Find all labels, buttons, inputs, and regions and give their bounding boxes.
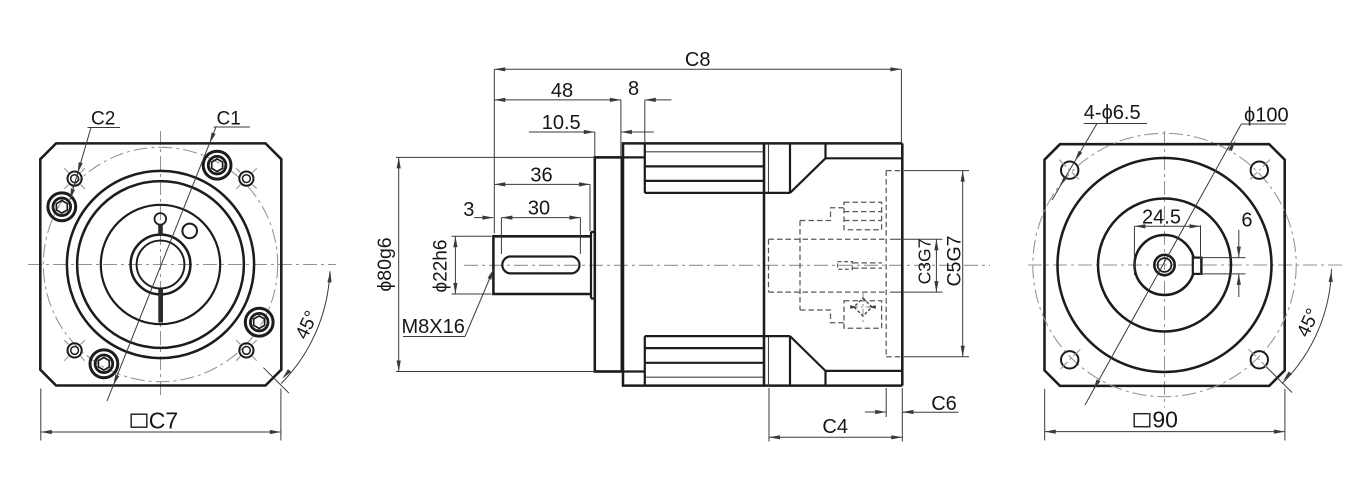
- left view socket head screw 4: [245, 308, 273, 336]
- svg-text:C5G7: C5G7: [944, 236, 966, 287]
- dimension phi100 arrows on bolt circle: [1228, 141, 1235, 152]
- left view socket head screw 3: [90, 350, 118, 378]
- svg-text:C1: C1: [217, 109, 241, 130]
- shaft collar ring: [591, 232, 595, 299]
- dimension 30 line: [501, 217, 580, 219]
- right view 45 degree arc arrow bottom: [1283, 371, 1292, 381]
- dimension 6 dimension line lower: [1238, 274, 1240, 297]
- svg-text:ϕ22h6: ϕ22h6: [431, 240, 452, 293]
- label 4-phi6.5 underline: [1084, 123, 1147, 125]
- svg-text:C2: C2: [91, 109, 115, 130]
- hidden motor pilot recess bottom edge: [886, 356, 902, 358]
- chamfer label C1 leader line diagonal: [107, 127, 216, 401]
- svg-text:24.5: 24.5: [1142, 207, 1181, 229]
- mounting slot thin edge line right: [768, 143, 770, 385]
- right view input bore inner circle: [1158, 258, 1172, 272]
- dimension 36 line: [494, 183, 590, 185]
- hidden clamp hub steps top: [800, 202, 844, 220]
- svg-text:C7: C7: [149, 408, 178, 434]
- left view small through hole 3: [68, 343, 82, 357]
- dimension C3G7 dimension line: [935, 239, 937, 292]
- mounting slot horizontal lines top: [646, 151, 763, 153]
- chamfer label C1 arrow at top edge: [210, 132, 216, 143]
- mounting slot block right edge full height: [763, 143, 766, 385]
- svg-text:4-ϕ6.5: 4-ϕ6.5: [1084, 102, 1141, 124]
- dimension C8 extension lines: [493, 69, 495, 233]
- right view corner hole 1: [1061, 162, 1078, 179]
- left view socket head screw 2: [48, 193, 76, 221]
- dimension C6 left tail and arrow: [865, 411, 886, 413]
- dimension squareC7 extension line right: [280, 389, 282, 441]
- body front edge at flange level top: [595, 156, 645, 158]
- right view corner hole 2: [1251, 162, 1268, 179]
- dimension 48 extension line: [620, 100, 622, 157]
- hidden short lines at center right: [853, 262, 882, 264]
- chamfer label C2 leader line: [70, 128, 91, 200]
- svg-text:ϕ80g6: ϕ80g6: [374, 237, 396, 291]
- dimension 3 tail and arrow: [474, 217, 493, 219]
- dimension 8 tail and arrow: [645, 99, 672, 101]
- right view 45 degree angle arc: [1282, 269, 1332, 384]
- dimension 10.5 line left tail: [529, 131, 595, 133]
- right view centerline horizontal: [1028, 264, 1345, 266]
- mounting slot horizontal lines bottom: [646, 376, 763, 378]
- dimension C6 right tail and arrow: [903, 411, 959, 413]
- left view keyway slot filled: [158, 289, 163, 323]
- svg-text:30: 30: [528, 198, 550, 220]
- right view inner circle: [1098, 199, 1231, 332]
- left view pin slot stem: [158, 224, 163, 235]
- dimension 36 extension line: [589, 184, 591, 231]
- dimension 10.5 extension line: [594, 132, 596, 157]
- middle view centerline: [464, 264, 990, 266]
- body rear step vertical top: [789, 143, 791, 193]
- svg-text:C8: C8: [685, 49, 711, 71]
- left view small through hole 2: [68, 172, 82, 186]
- svg-text:3: 3: [463, 199, 474, 221]
- chamfer label C2 arrow at small hole: [78, 162, 83, 173]
- front pilot flange phi80: [595, 157, 622, 371]
- left view centerline horizontal: [28, 264, 336, 266]
- svg-text:ϕ100: ϕ100: [1244, 105, 1289, 127]
- left view top pin hole: [155, 213, 167, 225]
- dimension phi100 underline: [1241, 123, 1286, 125]
- dimension C4 dimension line: [769, 436, 902, 438]
- clamp screw symbol centerline cross: [850, 306, 876, 308]
- dimension 48 line: [494, 99, 621, 101]
- mounting slot block verticals: [644, 143, 646, 385]
- dimension 24.5 extension lines: [1133, 226, 1135, 275]
- right view input bore outer circle: [1154, 255, 1174, 275]
- dimension squareC7 dimension line: [41, 431, 281, 433]
- svg-text:C4: C4: [822, 416, 848, 438]
- right view bolt circle phi100 dash-dot: [1033, 133, 1296, 396]
- hidden motor bore bottom line: [769, 291, 887, 293]
- output shaft keyway slot stadium: [502, 257, 579, 274]
- dimension squareC7 extension line left: [40, 389, 42, 441]
- left view shaft bore outer circle: [131, 235, 191, 295]
- dimension 10.5 line right tail: [621, 131, 654, 133]
- right view corner 45 degree radial extension: [1267, 367, 1293, 393]
- left view 45 degree angle arc: [281, 271, 330, 383]
- dimension phi22h6 dimension line: [454, 236, 456, 294]
- right view square flange outline with corner chamfers: [1045, 144, 1285, 386]
- hidden clamp hub vertical: [799, 221, 801, 311]
- left view shaft bore inner circle: [137, 241, 185, 289]
- rear flange chamfer transition bottom: [790, 336, 902, 386]
- dimension C3G7 extension lines: [890, 238, 943, 240]
- svg-text:M8X16: M8X16: [402, 316, 465, 338]
- hidden motor bore left edge: [768, 239, 770, 292]
- left view pilot circle: [77, 181, 244, 348]
- dimension C6 extension line: [885, 388, 887, 417]
- left view 45 degree arc arrow bottom: [282, 369, 291, 379]
- hidden clamp hub steps bottom: [800, 310, 844, 328]
- hidden clamp lower lug: [844, 301, 882, 329]
- body front edge at flange level bottom: [595, 370, 645, 372]
- body rear step vertical bottom: [789, 336, 791, 386]
- right view input keyway rectangle: [1193, 258, 1202, 274]
- dimension square90 extension lines: [1044, 389, 1046, 441]
- left view centerline vertical: [160, 131, 162, 397]
- chamfer label C2 arrow at screw hole: [70, 189, 75, 200]
- gearbox body outline: [622, 143, 903, 385]
- chamfer label C1 underline: [214, 126, 251, 128]
- right view corner hole 3: [1061, 351, 1078, 368]
- left view small through hole 1: [239, 172, 253, 186]
- dimension C4 extension lines: [768, 388, 770, 442]
- rear flange chamfer transition top: [790, 143, 902, 193]
- clamp screw symbol diamond: [854, 298, 872, 316]
- chamfer label C1 arrow at bottom edge: [113, 375, 119, 386]
- right view body circle: [1058, 158, 1272, 372]
- left view small hole near bore: [182, 224, 197, 239]
- chamfer label C2 underline: [88, 127, 121, 129]
- dimension phi80g6 dimension line: [398, 157, 400, 371]
- left view outer flange circle: [67, 171, 254, 358]
- hidden motor pilot recess top edge: [886, 170, 902, 172]
- dimension square90 dimension line: [1045, 431, 1285, 433]
- dimension 8 extension line: [644, 100, 646, 143]
- svg-text:90: 90: [1152, 407, 1178, 433]
- svg-text:6: 6: [1241, 209, 1252, 231]
- right view 45 degree arc arrow top: [1329, 271, 1333, 282]
- dimension 6 dimension line upper: [1238, 230, 1240, 258]
- svg-text:8: 8: [628, 78, 639, 100]
- label 4-phi6.5 leader: [1052, 124, 1097, 201]
- dimension 24.5 dimension line: [1134, 225, 1200, 227]
- dimension C8 line: [494, 68, 901, 70]
- dimension 30 extension lines: [500, 218, 502, 254]
- right view hub circle: [1135, 235, 1195, 295]
- right view corner hole 4: [1251, 351, 1268, 368]
- hidden clamp upper lug: [844, 202, 882, 230]
- right view centerline vertical: [1164, 131, 1166, 408]
- hidden motor pilot recess vertical: [885, 171, 887, 357]
- output shaft outline: [493, 236, 591, 294]
- dimension phi100 diagonal line: [1085, 124, 1241, 405]
- left view small through hole 4: [239, 343, 253, 357]
- hidden motor bore top line: [769, 238, 887, 240]
- left view inner boss circle: [101, 205, 220, 324]
- dimension C5G7 dimension line: [962, 171, 964, 357]
- svg-text:C3G7: C3G7: [915, 239, 935, 285]
- svg-text:C6: C6: [931, 393, 957, 415]
- left view bolt circle dash-dot: [43, 147, 277, 381]
- label M8X16 underline and leader: [403, 336, 465, 338]
- dimension 6 extension lines: [1201, 257, 1246, 259]
- dimension squareC7 square symbol: [131, 414, 147, 427]
- hidden input key slot small rect: [838, 262, 853, 270]
- svg-text:10.5: 10.5: [542, 112, 581, 134]
- dimension phi80g6 extension lines: [396, 156, 595, 158]
- dimension phi22h6 extension lines: [452, 235, 492, 237]
- left view square flange outline with corner chamfers: [40, 143, 281, 385]
- left view 45 degree arc arrow top: [327, 271, 331, 282]
- left view socket head screw 1: [203, 151, 231, 179]
- left view corner 45 degree radial extension: [264, 368, 290, 394]
- dimension square90 square symbol: [1134, 414, 1150, 427]
- svg-text:48: 48: [551, 80, 573, 102]
- dimension C5G7 extension lines: [904, 170, 969, 172]
- svg-text:36: 36: [530, 165, 552, 187]
